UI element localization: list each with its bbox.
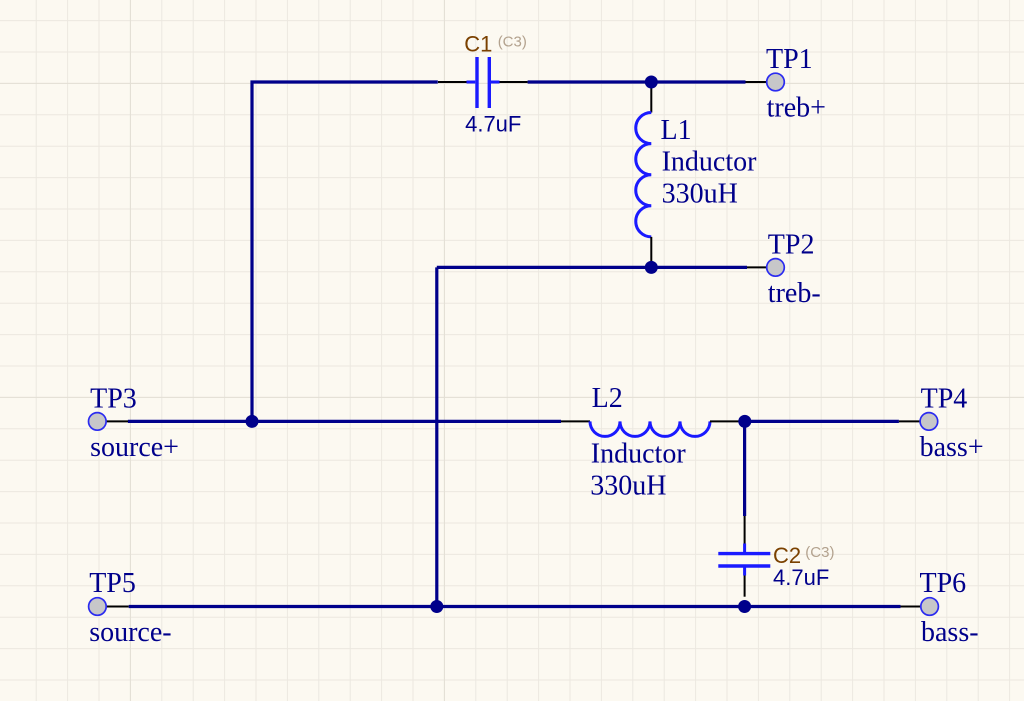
C1 plates xyxy=(477,57,489,108)
svg-text:bass-: bass- xyxy=(921,617,979,648)
junction dot bottom row at second vertical xyxy=(430,600,443,613)
svg-text:TP6: TP6 xyxy=(920,568,967,599)
test point TP3 xyxy=(89,413,129,431)
svg-text:treb-: treb- xyxy=(768,278,821,309)
svg-text:source+: source+ xyxy=(90,432,179,463)
capacitor C2 xyxy=(718,516,770,597)
test point TP2 xyxy=(747,259,784,277)
svg-text:4.7uF: 4.7uF xyxy=(773,565,829,590)
wire: source+ row right to TP4 xyxy=(739,420,899,423)
svg-text:330uH: 330uH xyxy=(590,470,666,501)
svg-text:(C3): (C3) xyxy=(805,544,834,561)
L2 left pin xyxy=(561,420,590,422)
svg-text:4.7uF: 4.7uF xyxy=(465,111,521,136)
C1 right pin xyxy=(499,81,528,83)
C1 blue stubs xyxy=(467,81,500,84)
C1 left pin xyxy=(438,81,467,83)
wire: second vertical from TP2 row down to bottom row xyxy=(435,267,438,606)
wire: bottom row xyxy=(129,605,901,608)
svg-text:TP1: TP1 xyxy=(766,44,813,75)
junction dot source+ row at L2/C2 xyxy=(738,415,751,428)
junction dot top at L1/C1 wire xyxy=(645,76,658,89)
junction dot bottom row at C2 xyxy=(738,600,751,613)
C2 top pin xyxy=(744,516,746,544)
wire: vertical down to C2 xyxy=(743,421,746,516)
svg-text:TP3: TP3 xyxy=(90,383,137,414)
svg-text:TP2: TP2 xyxy=(768,229,815,260)
svg-text:C1: C1 xyxy=(464,32,492,57)
L2 arcs xyxy=(590,421,710,436)
capacitor C1 xyxy=(438,57,528,108)
C2 blue stubs xyxy=(743,544,746,576)
inductor L1 xyxy=(636,82,652,267)
L2 right pin xyxy=(710,420,739,422)
test point TP1 xyxy=(746,73,785,91)
svg-text:TP5: TP5 xyxy=(89,568,136,599)
C2 plates xyxy=(718,554,770,566)
test point TP6 xyxy=(901,598,939,616)
wire: source+ row left xyxy=(128,420,561,423)
svg-text:treb+: treb+ xyxy=(767,93,826,124)
junction dot TP2 row at L1 bottom xyxy=(645,261,658,274)
wire: top row right of C1 to TP1 xyxy=(528,80,746,83)
svg-text:Inductor: Inductor xyxy=(591,439,687,470)
svg-text:Inductor: Inductor xyxy=(662,147,758,178)
svg-text:TP4: TP4 xyxy=(921,384,968,415)
wire: left vertical from top row to source+ junction xyxy=(252,82,438,421)
svg-text:(C3): (C3) xyxy=(498,33,527,50)
L1 bottom pin xyxy=(650,237,652,268)
C2 bottom pin xyxy=(744,575,746,597)
svg-text:330uH: 330uH xyxy=(662,178,738,209)
test point TP4 xyxy=(899,413,938,431)
svg-text:L2: L2 xyxy=(592,383,623,414)
wire: TP2 row horizontal xyxy=(437,266,747,269)
junction dot source+ row left vertical xyxy=(246,415,259,428)
inductor L2 xyxy=(561,421,739,436)
svg-text:bass+: bass+ xyxy=(920,432,984,463)
test point TP5 xyxy=(89,598,129,616)
L1 arcs xyxy=(636,113,652,237)
svg-text:L1: L1 xyxy=(661,115,692,146)
svg-text:source-: source- xyxy=(89,617,171,648)
L1 top pin xyxy=(650,82,652,113)
